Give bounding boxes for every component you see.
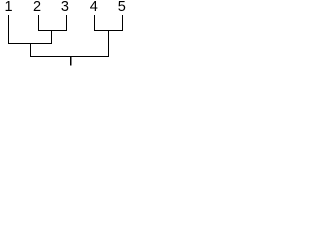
wire cluster (4,5) bar bbox=[94, 30, 123, 31]
wire cluster (1,2,3) stem bbox=[30, 43, 31, 57]
wire leaf 1 drop bbox=[8, 15, 9, 44]
svg-text:3: 3 bbox=[61, 0, 69, 15]
wire leaf 4 drop bbox=[94, 15, 95, 31]
wire cluster (4,5) stem bbox=[108, 30, 109, 57]
wire leaf 5 drop bbox=[122, 15, 123, 31]
wire cluster (1,2,3) bar bbox=[8, 43, 52, 44]
wire root stem bbox=[70, 56, 72, 66]
wire leaf 2 drop bbox=[38, 15, 39, 31]
svg-text:2: 2 bbox=[33, 0, 41, 15]
wire cluster (2,3) stem bbox=[51, 30, 52, 44]
wire leaf 3 drop bbox=[66, 15, 67, 31]
svg-text:1: 1 bbox=[5, 0, 13, 15]
wire root bar bbox=[30, 56, 109, 57]
svg-text:4: 4 bbox=[90, 0, 98, 15]
wire cluster (2,3) bar bbox=[38, 30, 67, 31]
svg-text:5: 5 bbox=[118, 0, 126, 15]
